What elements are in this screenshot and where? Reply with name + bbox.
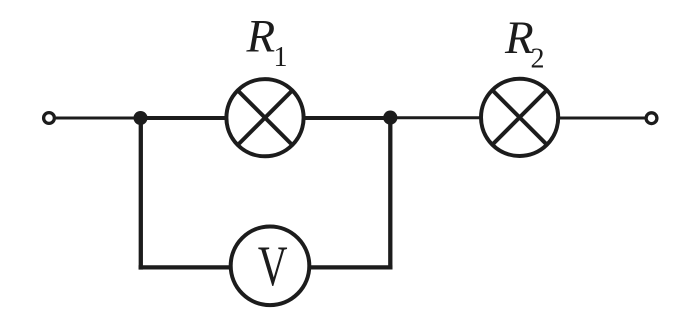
wire T1 to node A: [56, 117, 136, 120]
label R2: [504, 12, 545, 74]
wire node A down (left branch vertical): [139, 118, 143, 270]
wire lamp R1 to node B: [303, 116, 390, 120]
label R1: [246, 11, 288, 73]
node B (junction dot): [383, 111, 397, 125]
svg-text:R: R: [246, 11, 276, 63]
wire voltmeter to bottom right: [309, 265, 393, 269]
wire node A to lamp R1: [141, 116, 228, 120]
wire lamp R2 to terminal T2: [557, 117, 645, 120]
wire bottom left (to voltmeter): [139, 265, 231, 269]
svg-text:1: 1: [274, 42, 288, 73]
wire node B to lamp R2: [390, 116, 483, 119]
terminal T2 (right open circle): [646, 113, 657, 124]
lamp R1 (circle with cross): [226, 79, 303, 156]
lamp R2 (circle with cross): [481, 79, 558, 156]
svg-text:V: V: [258, 235, 288, 298]
voltmeter U1 (circle): [231, 226, 310, 305]
svg-text:2: 2: [531, 43, 545, 74]
node A (junction dot): [134, 111, 148, 125]
terminal T1 (left open circle): [44, 113, 55, 124]
svg-text:R: R: [504, 12, 534, 64]
wire node B down (right branch vertical): [388, 118, 392, 270]
